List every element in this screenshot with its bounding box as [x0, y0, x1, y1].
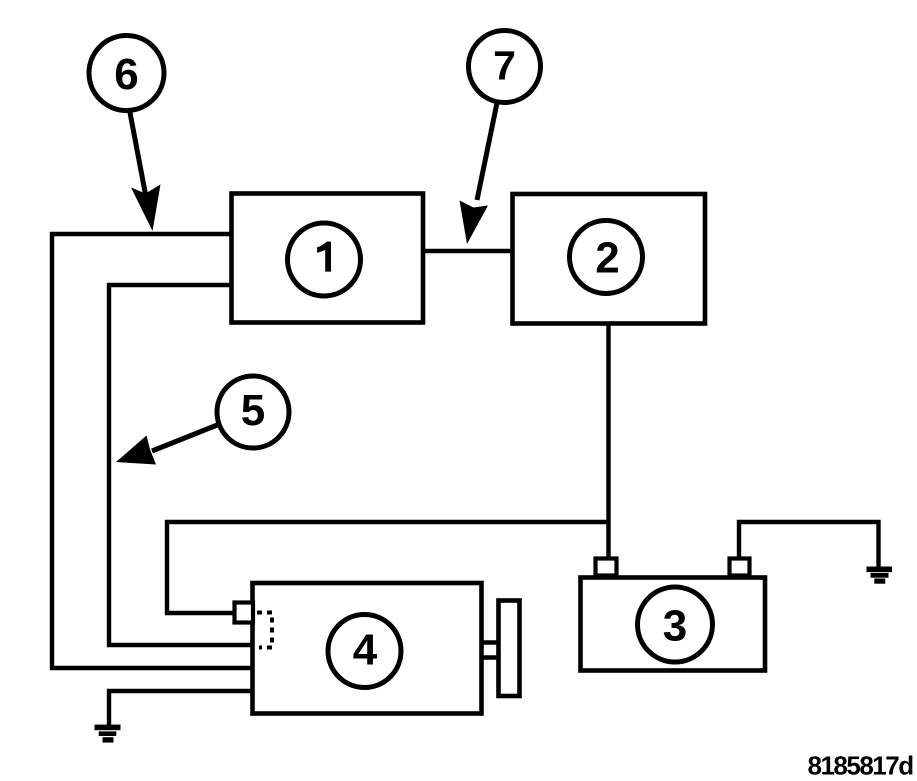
callout circle 1	[288, 223, 361, 296]
callout circle 6	[89, 36, 164, 111]
arrow 7 head	[460, 201, 489, 245]
svg-text:7: 7	[493, 43, 516, 89]
arrow 6 head	[131, 185, 161, 232]
box 1	[232, 194, 424, 323]
drive bar lower	[482, 655, 500, 659]
ground symbol right	[867, 567, 893, 584]
battery terminal left	[596, 559, 617, 576]
wire battery negative to right ground	[739, 522, 879, 569]
callout circle 5	[217, 376, 289, 448]
arrow 5 shaft	[152, 424, 221, 452]
svg-text:8185817d: 8185817d	[808, 751, 914, 781]
svg-text:6: 6	[114, 50, 138, 99]
svg-text:4: 4	[353, 626, 378, 675]
starter box 4	[253, 583, 482, 714]
flywheel plate	[499, 601, 520, 697]
arrow 5 head	[116, 436, 156, 465]
callout circle 4	[328, 615, 401, 688]
drive bar upper	[482, 640, 500, 644]
arrow 6 shaft	[130, 110, 147, 197]
battery terminal right	[730, 559, 750, 576]
wire second feed to starter (callout 5 target)	[109, 285, 253, 645]
wire box2 to battery positive terminal	[606, 323, 610, 559]
callout circle 2	[570, 221, 643, 294]
wire battery junction to starter solenoid connector	[167, 522, 609, 613]
battery box 3	[581, 578, 766, 671]
wire feed from top-left to starter (callout 6 target)	[52, 234, 253, 668]
svg-text:5: 5	[241, 386, 265, 435]
callout circle 3	[638, 587, 713, 662]
svg-text:3: 3	[663, 602, 687, 651]
svg-text:2: 2	[595, 234, 619, 283]
callout circle 7	[469, 31, 541, 103]
dashed link inside starter	[257, 613, 272, 648]
arrow 7 shaft	[477, 103, 497, 200]
wire starter to bottom-left ground	[109, 691, 253, 727]
ground symbol bottom-left	[95, 725, 121, 743]
wire box1 to box2 (callout 7 target)	[423, 249, 512, 253]
starter solenoid connector	[235, 603, 254, 623]
box 2	[513, 194, 706, 324]
